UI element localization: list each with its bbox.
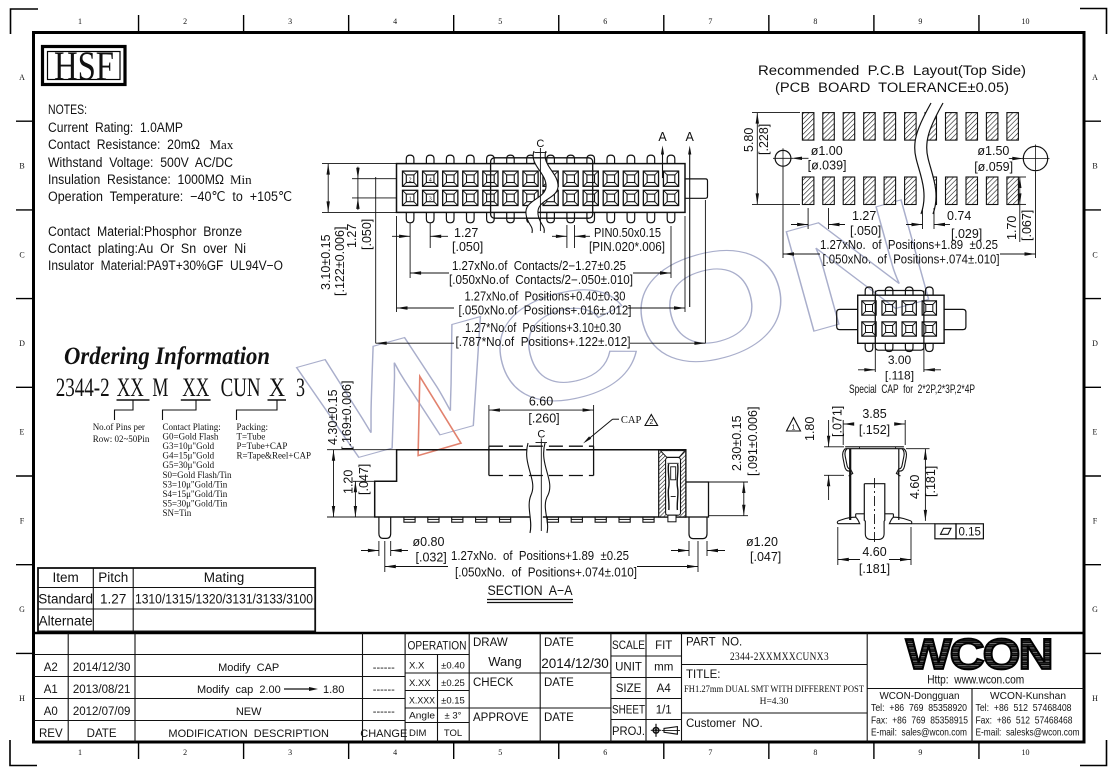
svg-text:FIT: FIT [655, 640, 672, 652]
svg-text:ø1.50: ø1.50 [977, 144, 1009, 158]
top view: break band [526, 151, 558, 233]
dim section positions span [385, 541, 698, 580]
svg-text:1.27xNo. of Positions+1.89: 1.27xNo. of Positions+1.89 ±0.25 [820, 238, 998, 252]
svg-text:Customer NO.: Customer NO. [686, 718, 763, 730]
svg-text:3.00: 3.00 [888, 353, 912, 367]
svg-text:Mating: Mating [204, 570, 245, 585]
dim 1.20 left step [342, 464, 375, 517]
svg-text:XX: XX [117, 372, 144, 402]
dim PIN 0.50x0.15 [552, 225, 665, 254]
svg-text:7: 7 [708, 17, 712, 26]
svg-text:(PCB BOARD TOLERANCE±0.05): (PCB BOARD TOLERANCE±0.05) [775, 80, 1009, 95]
svg-text:1.80: 1.80 [803, 417, 817, 441]
svg-text:CUN: CUN [221, 372, 261, 402]
part no / title text [684, 637, 864, 731]
svg-text:G: G [19, 605, 25, 614]
mating table [38, 568, 315, 631]
svg-text:Fax: +86 769 85358915: Fax: +86 769 85358915 [871, 714, 968, 726]
pcb hole right [1022, 145, 1050, 173]
revision rows text [39, 662, 407, 740]
post view: left clip [843, 449, 853, 476]
svg-text:[ø.059]: [ø.059] [974, 160, 1013, 174]
svg-text:PART NO.: PART NO. [686, 637, 742, 649]
svg-text:X.XXX: X.XXX [409, 696, 436, 707]
svg-text:[.181]: [.181] [924, 466, 938, 497]
svg-text:H=4.30: H=4.30 [760, 697, 789, 707]
svg-text:2344-2XXMXXCUNX3: 2344-2XXMXXCUNX3 [730, 649, 829, 663]
svg-text:Tel: +86 512 57468408: Tel: +86 512 57468408 [976, 702, 1072, 714]
svg-text:Min: Min [230, 172, 252, 187]
svg-text:X.X: X.X [409, 661, 425, 672]
svg-text:ø1.20: ø1.20 [746, 535, 778, 549]
svg-text:1: 1 [792, 425, 796, 432]
svg-text:2: 2 [649, 419, 653, 426]
post view: top plate [845, 447, 904, 449]
svg-text:Special CAP for 2*2P,2*3P,2: Special CAP for 2*2P,2*3P,2*4P [849, 382, 975, 396]
top view: pin numbers 2,4 / 1,3 [409, 177, 432, 202]
svg-text:G: G [1092, 605, 1098, 614]
post view: bottom flanges [837, 514, 935, 524]
label hole dia 1.50 [974, 144, 1023, 174]
svg-text:4: 4 [393, 17, 397, 26]
svg-text:Modify CAP: Modify CAP [218, 662, 279, 674]
svg-text:G5=30μ"Gold: G5=30μ"Gold [163, 460, 215, 470]
packing list [237, 422, 312, 461]
svg-text:S0=Gold Flash/Tin: S0=Gold Flash/Tin [163, 470, 233, 480]
top view: connector body [397, 164, 686, 213]
svg-text:[.228]: [.228] [757, 124, 771, 155]
svg-text:A: A [658, 130, 667, 144]
svg-text:[.787*No.of Positions+.122±.0: [.787*No.of Positions+.122±.012] [456, 335, 631, 349]
svg-text:2013/08/21: 2013/08/21 [73, 684, 131, 696]
svg-text:Insulator Material:PA9T+30%GF: Insulator Material:PA9T+30%GF UL94V−O [48, 258, 283, 273]
svg-text:5: 5 [498, 748, 502, 757]
top view: right polarity tab [685, 179, 708, 198]
svg-text:[.118]: [.118] [885, 369, 914, 383]
special cap: pins [865, 287, 933, 352]
svg-text:X: X [269, 372, 285, 402]
svg-text:2: 2 [183, 17, 187, 26]
svg-text:Pitch: Pitch [98, 570, 128, 585]
top view: centerline C [535, 138, 547, 231]
svg-text:H: H [19, 694, 25, 703]
svg-text:Insulation Resistance: 1000M: Insulation Resistance: 1000MΩ [48, 172, 224, 187]
pins-per-row note [93, 422, 150, 444]
svg-text:C: C [1092, 250, 1097, 259]
svg-text:Wang: Wang [488, 654, 521, 669]
svg-text:NEW: NEW [236, 706, 262, 718]
svg-text:[.050xNo.of Positions+.016±.0: [.050xNo.of Positions+.016±.012] [459, 304, 632, 318]
svg-text:2014/12/30: 2014/12/30 [73, 662, 131, 674]
section A-A: body outline [375, 450, 686, 517]
section A-A: contact in wall [660, 451, 685, 522]
svg-text:Angle: Angle [409, 711, 435, 722]
svg-text:6: 6 [603, 748, 607, 757]
svg-text:1310/1315/1320/3131/3133/3100: 1310/1315/1320/3131/3133/3100 [135, 592, 313, 607]
svg-text:[.050xNo. of Positions+.074±: [.050xNo. of Positions+.074±.010] [455, 566, 637, 580]
svg-text:1: 1 [78, 748, 82, 757]
svg-text:H: H [1092, 694, 1098, 703]
orange triangle watermark [418, 376, 461, 455]
svg-text:1: 1 [78, 17, 82, 26]
svg-text:Contact plating:Au Or Sn o: Contact plating:Au Or Sn over Ni [48, 241, 246, 256]
notes text block [48, 102, 292, 273]
dim 1.27 row pitch (left of top view) [345, 167, 397, 250]
CAP label with leader [583, 415, 657, 444]
svg-text:[.050]: [.050] [850, 224, 881, 238]
svg-text:DATE: DATE [544, 677, 574, 689]
svg-text:XX: XX [182, 372, 209, 402]
svg-text:S5=30μ"Gold/Tin: S5=30μ"Gold/Tin [163, 498, 228, 508]
part number code [56, 372, 305, 402]
svg-text:Http: www.wcon.com: Http: www.wcon.com [927, 673, 1024, 687]
svg-text:TOL: TOL [444, 728, 462, 739]
dim contacts/2 chain [410, 226, 671, 287]
svg-text:[.047]: [.047] [357, 464, 371, 495]
special cap: right tab [944, 309, 966, 329]
svg-text:PROJ.: PROJ. [612, 726, 645, 738]
svg-text:A: A [686, 130, 695, 144]
svg-text:1.27xNo.of Contacts/2−1.27±0.: 1.27xNo.of Contacts/2−1.27±0.25 [452, 259, 626, 273]
svg-text:No.of Pins per: No.of Pins per [93, 422, 145, 432]
svg-text:Operation Temperature: −40℃: Operation Temperature: −40℃ to +105℃ [48, 189, 292, 204]
section A-A: smt leads [404, 517, 654, 522]
svg-text:2344-2: 2344-2 [56, 372, 110, 402]
svg-text:5.80: 5.80 [742, 128, 756, 152]
svg-text:3: 3 [288, 748, 292, 757]
svg-text:Contact Plating:: Contact Plating: [163, 422, 221, 432]
svg-text:1.80: 1.80 [323, 684, 344, 696]
svg-text:Withstand Voltage: 500V AC/: Withstand Voltage: 500V AC/DC [48, 155, 233, 170]
dim 2.30 right step height [709, 407, 761, 516]
label hole dia 1.00 [791, 144, 847, 173]
special cap: contacts [862, 301, 937, 336]
svg-text:6: 6 [603, 17, 607, 26]
pcb layout title [758, 63, 1026, 95]
leader bracket: pins per row [115, 401, 134, 421]
svg-text:S3=10μ"Gold/Tin: S3=10μ"Gold/Tin [163, 479, 228, 489]
svg-text:0.15: 0.15 [959, 526, 981, 538]
svg-text:±0.40: ±0.40 [441, 661, 465, 672]
dim 4.60 height [906, 449, 938, 521]
dim pcb positions span [783, 167, 1036, 267]
svg-text:[.050]: [.050] [360, 219, 374, 250]
svg-text:G0=Gold Flash: G0=Gold Flash [163, 432, 219, 442]
svg-text:[.169±0.006]: [.169±0.006] [340, 381, 354, 450]
pcb break band [915, 103, 943, 214]
dim 1.20 right leg dia [671, 535, 781, 564]
svg-text:HSF: HSF [54, 43, 114, 89]
section A-A: cap dashed outline [489, 446, 594, 475]
svg-text:1: 1 [409, 197, 412, 203]
svg-text:DATE: DATE [544, 712, 574, 724]
svg-text:2014/12/30: 2014/12/30 [541, 656, 609, 671]
svg-text:6.60: 6.60 [529, 395, 553, 409]
svg-text:MODIFICATION DESCRIPTION: MODIFICATION DESCRIPTION [168, 728, 329, 740]
svg-text:A4: A4 [657, 683, 672, 695]
section A-A: break band [527, 443, 550, 533]
svg-text:R=Tape&Reel+CAP: R=Tape&Reel+CAP [237, 451, 312, 461]
svg-text:CHECK: CHECK [473, 677, 514, 689]
svg-text:7: 7 [708, 748, 712, 757]
svg-text:1.27: 1.27 [100, 592, 126, 607]
svg-text:OPERATION: OPERATION [408, 641, 467, 653]
svg-text:G3=10μ"Gold: G3=10μ"Gold [163, 441, 215, 451]
svg-text:1.70: 1.70 [1005, 216, 1019, 240]
section cut line A (left) [658, 130, 667, 178]
svg-text:E: E [20, 428, 25, 437]
svg-text:ø1.00: ø1.00 [811, 144, 843, 158]
svg-text:[.067]: [.067] [1020, 210, 1034, 241]
svg-text:T=Tube: T=Tube [237, 432, 266, 442]
draw/check/approve cells [473, 637, 609, 724]
svg-text:------: ------ [373, 684, 395, 696]
WCON logo [906, 630, 1052, 679]
dim 3.00 cap width [858, 353, 941, 383]
svg-text:[.071]: [.071] [831, 406, 845, 437]
wcon contact info grid [867, 689, 1084, 743]
svg-text:F: F [1093, 516, 1098, 525]
svg-text:CAP: CAP [621, 415, 642, 426]
svg-text:2: 2 [183, 748, 187, 757]
wcon contact info text [871, 690, 1080, 739]
svg-text:1.27*No.of Positions+3.10±0.3: 1.27*No.of Positions+3.10±0.30 [465, 321, 621, 335]
dim 3.10 body height (left of top view) [319, 164, 397, 296]
svg-text:2.30±0.15: 2.30±0.15 [730, 415, 744, 471]
svg-text:REV: REV [39, 728, 63, 740]
svg-text:Tel: +86 769 85358920: Tel: +86 769 85358920 [871, 702, 967, 714]
svg-text:3: 3 [429, 197, 432, 203]
svg-text:5: 5 [498, 17, 502, 26]
svg-text:[ø.039]: [ø.039] [808, 159, 847, 173]
flatness feature frame 0.15 [935, 524, 984, 539]
svg-text:Max: Max [210, 137, 234, 152]
svg-text:------: ------ [373, 662, 395, 674]
svg-text:E-mail: sales@wcon.com: E-mail: sales@wcon.com [871, 727, 967, 739]
svg-text:DATE: DATE [544, 637, 574, 649]
svg-text:UNIT: UNIT [615, 662, 642, 674]
svg-text:S4=15μ"Gold/Tin: S4=15μ"Gold/Tin [163, 489, 228, 499]
svg-text:G4=15μ"Gold: G4=15μ"Gold [163, 451, 215, 461]
post view: center post [864, 478, 885, 543]
svg-text:[.181]: [.181] [859, 562, 890, 576]
HSF logo box [43, 43, 126, 89]
section cut line A (right) [686, 130, 695, 307]
svg-text:8: 8 [813, 748, 817, 757]
dim positions+3.10 chain [376, 177, 706, 349]
svg-text:4: 4 [393, 748, 397, 757]
svg-text:10: 10 [1021, 748, 1029, 757]
svg-text:Modify cap 2.00: Modify cap 2.00 [197, 684, 281, 696]
svg-text:M: M [152, 372, 168, 402]
svg-text:C: C [19, 250, 24, 259]
svg-text:Fax: +86 512 57468468: Fax: +86 512 57468468 [976, 714, 1073, 726]
svg-text:[.050xNo.of Contacts/2−.050±.: [.050xNo.of Contacts/2−.050±.010] [449, 273, 633, 287]
scale/unit/size/sheet/proj cells [612, 640, 673, 738]
svg-text:Ordering Information: Ordering Information [64, 343, 270, 370]
section A-A: left leg [379, 517, 391, 538]
top view: contacts grid [403, 171, 679, 205]
section A-A: right leg [689, 517, 707, 539]
svg-text:D: D [1092, 339, 1098, 348]
svg-text:B: B [1092, 162, 1097, 171]
svg-text:A1: A1 [44, 684, 58, 696]
svg-text:3: 3 [288, 17, 292, 26]
section A-A: right post [686, 482, 709, 517]
dim 1.27 pad pitch [791, 208, 881, 238]
svg-text:D: D [19, 339, 25, 348]
svg-text:E-mail: salesks@wcon.com: E-mail: salesks@wcon.com [976, 727, 1080, 739]
svg-text:[.032]: [.032] [416, 551, 447, 565]
dim 1.70 pad height [1005, 177, 1034, 242]
svg-text:CHANGE: CHANGE [360, 728, 407, 740]
leader bracket: packing [237, 401, 278, 421]
svg-text:------: ------ [373, 706, 395, 718]
svg-text:[.091±0.006]: [.091±0.006] [746, 407, 760, 476]
svg-text:X.XX: X.XX [409, 678, 431, 689]
top view: cap outline overlay [491, 158, 593, 218]
svg-text:E: E [1093, 428, 1098, 437]
dim 4.60 width [838, 527, 911, 576]
svg-text:WCON-Dongguan: WCON-Dongguan [880, 690, 960, 702]
svg-text:TITLE:: TITLE: [686, 669, 721, 681]
special cap: left tab [837, 309, 858, 329]
section A-A: centerline C [536, 429, 548, 532]
special cap: body [858, 295, 944, 343]
svg-text:1.20: 1.20 [342, 470, 356, 494]
svg-text:SN=Tin: SN=Tin [163, 508, 192, 518]
dim 3.85 top width [843, 407, 905, 445]
title block grid [34, 633, 1085, 742]
svg-text:Packing:: Packing: [237, 422, 269, 432]
leader bracket: contact plating [163, 401, 197, 421]
svg-text:3: 3 [296, 372, 305, 402]
svg-text:Recommended P.C.B Layout(Top: Recommended P.C.B Layout(Top Side) [758, 63, 1026, 78]
svg-text:Contact Material:Phosphor Br: Contact Material:Phosphor Bronze [48, 224, 242, 239]
post view: right clip [896, 449, 906, 476]
svg-text:3.10±0.15: 3.10±0.15 [319, 234, 333, 290]
svg-text:B: B [19, 162, 24, 171]
svg-text:mm: mm [654, 662, 673, 674]
svg-text:PIN0.50x0.15: PIN0.50x0.15 [594, 226, 661, 240]
svg-text:1.27xNo. of Positions+1.89: 1.27xNo. of Positions+1.89 ±0.25 [451, 549, 629, 563]
svg-text:1.27: 1.27 [345, 224, 359, 248]
svg-text:SHEET: SHEET [612, 705, 645, 717]
svg-text:Contact Resistance: 20mΩ: Contact Resistance: 20mΩ [48, 137, 200, 152]
dim 1.80 clip height [787, 406, 845, 500]
dim 5.80 pad span [742, 113, 800, 205]
svg-text:WCON-Kunshan: WCON-Kunshan [990, 690, 1066, 702]
WCON watermark [288, 165, 951, 498]
svg-text:SECTION A−A: SECTION A−A [488, 583, 573, 598]
svg-text:SIZE: SIZE [616, 683, 642, 695]
svg-text:APPROVE: APPROVE [473, 712, 529, 724]
svg-text:DRAW: DRAW [473, 637, 508, 649]
svg-text:4: 4 [429, 177, 432, 183]
svg-text:[.152]: [.152] [859, 423, 890, 437]
svg-text:A: A [19, 73, 25, 82]
svg-text:±0.15: ±0.15 [441, 696, 465, 707]
post view: body sides [850, 449, 899, 520]
svg-text:[.260]: [.260] [528, 412, 559, 426]
svg-text:A0: A0 [44, 706, 58, 718]
svg-text:4.60: 4.60 [862, 545, 886, 559]
svg-text:Item: Item [52, 570, 78, 585]
pcb pads bottom row [802, 177, 1018, 205]
svg-text:Current Rating: 1.0AMP: Current Rating: 1.0AMP [48, 120, 183, 135]
svg-text:3.85: 3.85 [862, 407, 886, 421]
dim 0.74 pad width [906, 208, 982, 241]
svg-text:Standard: Standard [38, 592, 93, 607]
svg-text:[.050xNo. of Positions+.074±: [.050xNo. of Positions+.074±.010] [823, 253, 1000, 267]
dim 4.30 overall height [326, 381, 397, 517]
pcb pads top row [802, 113, 1018, 141]
svg-text:DATE: DATE [87, 728, 117, 740]
operation tolerance text [408, 641, 467, 740]
pcb hole left [773, 148, 793, 168]
svg-text:[.047]: [.047] [750, 550, 781, 564]
contact plating list [163, 422, 233, 518]
svg-text:Row: 02~50Pin: Row: 02~50Pin [93, 434, 150, 444]
svg-text:1.27: 1.27 [454, 226, 478, 240]
svg-text:FH1.27mm DUAL SMT WITH DIFFERE: FH1.27mm DUAL SMT WITH DIFFERENT POST [684, 685, 864, 695]
svg-text:1/1: 1/1 [656, 705, 672, 717]
svg-text:±0.25: ±0.25 [441, 678, 465, 689]
dim 6.60 cap width [489, 395, 594, 447]
svg-text:Alternate: Alternate [39, 614, 93, 629]
svg-text:1.27: 1.27 [852, 209, 876, 223]
section title [487, 583, 573, 603]
svg-text:1.27xNo.of Positions+0.40±0.3: 1.27xNo.of Positions+0.40±0.30 [465, 290, 626, 304]
svg-text:4.30±0.15: 4.30±0.15 [326, 389, 340, 445]
svg-text:NOTES:: NOTES: [48, 102, 87, 117]
svg-text:A2: A2 [44, 662, 58, 674]
svg-text:2: 2 [409, 177, 412, 183]
first angle projection symbol [651, 724, 680, 737]
svg-text:P=Tube+CAP: P=Tube+CAP [237, 441, 288, 451]
svg-text:9: 9 [918, 17, 922, 26]
special cap: cap outline with extension lines [875, 291, 924, 373]
svg-text:[PIN.020*.006]: [PIN.020*.006] [589, 240, 665, 254]
svg-text:DIM: DIM [409, 728, 427, 739]
dim 0.80 left leg dia [361, 535, 447, 565]
dim positions+0.40 chain [397, 216, 686, 318]
svg-text:0.74: 0.74 [947, 209, 971, 223]
svg-text:ø0.80: ø0.80 [413, 535, 445, 549]
svg-text:8: 8 [813, 17, 817, 26]
top view: pins (rows of U shapes) [406, 155, 675, 223]
svg-text:4.60: 4.60 [908, 475, 922, 499]
svg-text:9: 9 [918, 748, 922, 757]
svg-text:10: 10 [1021, 17, 1029, 26]
svg-text:A: A [1092, 73, 1098, 82]
svg-text:[.050]: [.050] [452, 240, 483, 254]
dim 1.27 contact pitch (below top view) [392, 223, 483, 254]
section A-A: hatched wall [659, 450, 686, 517]
svg-text:± 3°: ± 3° [445, 711, 462, 722]
svg-text:F: F [20, 516, 25, 525]
svg-text:SCALE: SCALE [612, 640, 645, 652]
svg-text:2012/07/09: 2012/07/09 [73, 706, 131, 718]
